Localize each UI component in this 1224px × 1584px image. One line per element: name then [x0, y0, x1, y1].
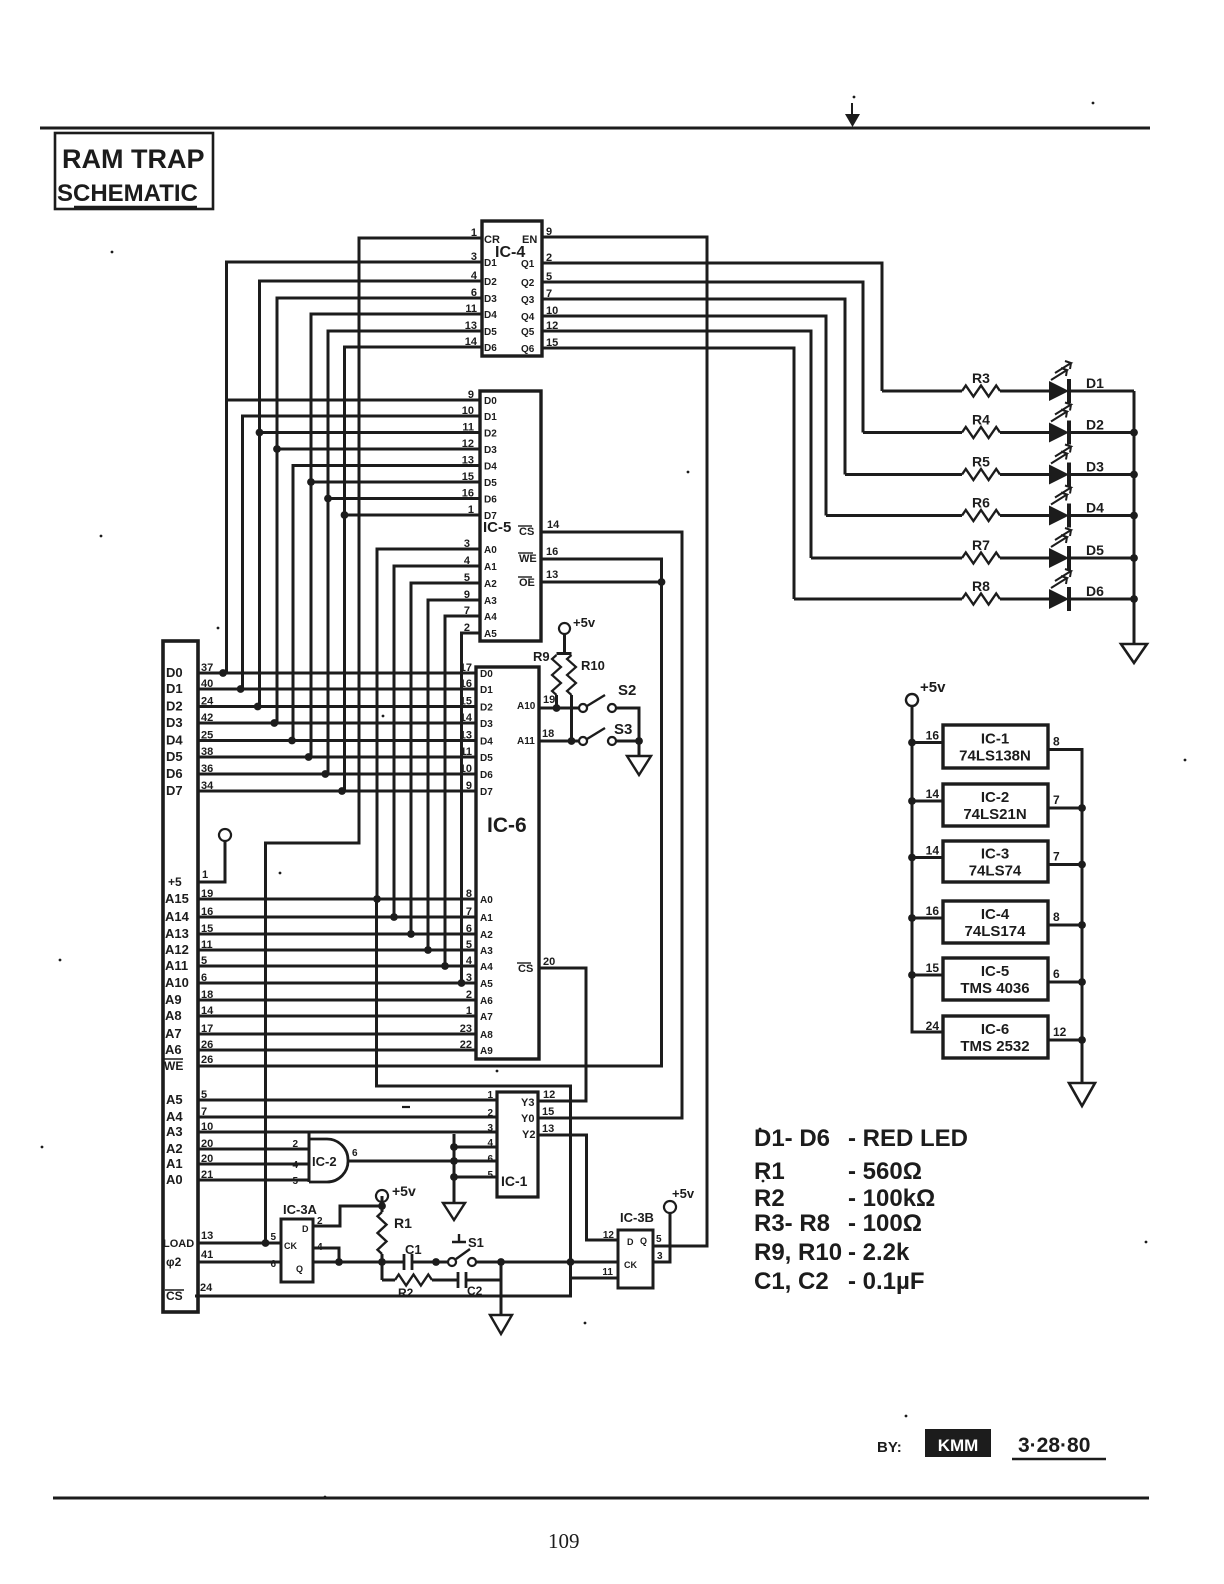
svg-text:24: 24 [200, 1282, 213, 1294]
svg-text:42: 42 [201, 712, 213, 724]
svg-text:22: 22 [460, 1039, 472, 1051]
svg-text:S3: S3 [614, 721, 632, 738]
svg-text:3: 3 [657, 1251, 663, 1262]
svg-text:Q3: Q3 [521, 295, 535, 306]
svg-text:R4: R4 [972, 412, 990, 428]
svg-text:- RED LED: - RED LED [848, 1125, 968, 1152]
svg-text:A4: A4 [484, 612, 497, 623]
svg-text:16: 16 [926, 904, 940, 918]
svg-text:A2: A2 [484, 579, 497, 590]
svg-text:3: 3 [471, 251, 477, 263]
svg-text:R2: R2 [754, 1185, 785, 1212]
svg-text:74LS138N: 74LS138N [959, 748, 1031, 765]
svg-text:21: 21 [201, 1169, 213, 1181]
svg-text:Y3: Y3 [521, 1097, 534, 1109]
svg-text:18: 18 [542, 728, 554, 740]
svg-text:A11: A11 [165, 958, 188, 973]
svg-text:Q1: Q1 [521, 259, 535, 270]
svg-text:KMM: KMM [938, 1436, 979, 1455]
svg-text:7: 7 [466, 906, 472, 918]
svg-text:2: 2 [546, 252, 552, 264]
svg-text:RAM TRAP: RAM TRAP [62, 144, 205, 174]
svg-text:WE: WE [519, 553, 537, 565]
svg-text:6: 6 [1053, 967, 1060, 981]
svg-text:D: D [302, 1224, 309, 1234]
svg-text:12: 12 [546, 320, 558, 332]
svg-text:74LS74: 74LS74 [969, 863, 1022, 880]
svg-text:A3: A3 [484, 596, 497, 607]
svg-text:D5: D5 [484, 478, 497, 489]
svg-text:4: 4 [466, 955, 473, 967]
svg-text:D5: D5 [480, 753, 493, 764]
svg-text:D0: D0 [166, 665, 183, 680]
svg-text:EN: EN [522, 234, 537, 246]
svg-text:- 100Ω: - 100Ω [848, 1210, 922, 1237]
svg-text:D7: D7 [480, 787, 493, 798]
svg-text:R3- R8: R3- R8 [754, 1210, 830, 1237]
svg-text:D: D [627, 1237, 634, 1247]
svg-text:1: 1 [468, 504, 474, 516]
svg-text:10: 10 [462, 405, 474, 417]
svg-text:D1: D1 [480, 685, 493, 696]
svg-text:A11: A11 [517, 736, 535, 747]
svg-text:- 100kΩ: - 100kΩ [848, 1185, 935, 1212]
svg-text:9: 9 [464, 589, 470, 601]
svg-text:13: 13 [462, 455, 474, 467]
svg-text:13: 13 [465, 320, 477, 332]
svg-text:2: 2 [487, 1108, 493, 1119]
svg-text:D1: D1 [1086, 375, 1104, 391]
svg-text:CR: CR [484, 234, 500, 246]
svg-text:CK: CK [284, 1241, 297, 1251]
svg-text:14: 14 [460, 712, 473, 724]
svg-text:A0: A0 [484, 545, 497, 556]
svg-text:13: 13 [546, 569, 558, 581]
svg-text:26: 26 [201, 1054, 213, 1066]
svg-text:D6: D6 [1086, 583, 1104, 599]
svg-text:7: 7 [1053, 793, 1060, 807]
svg-text:9: 9 [466, 780, 472, 792]
svg-text:A9: A9 [480, 1046, 493, 1057]
svg-text:TMS 4036: TMS 4036 [960, 980, 1029, 997]
svg-text:A8: A8 [480, 1030, 493, 1041]
svg-text:+5v: +5v [392, 1183, 416, 1199]
svg-text:1: 1 [471, 227, 477, 239]
svg-text:16: 16 [926, 729, 940, 743]
svg-text:12: 12 [603, 1230, 615, 1241]
svg-text:16: 16 [201, 906, 213, 918]
svg-text:16: 16 [460, 678, 472, 690]
svg-text:8: 8 [1053, 735, 1060, 749]
svg-text:SCHEMATIC: SCHEMATIC [57, 180, 198, 207]
svg-text:- 2.2k: - 2.2k [848, 1239, 910, 1266]
svg-text:IC-4: IC-4 [981, 906, 1010, 923]
svg-text:38: 38 [201, 746, 213, 758]
svg-text:TMS 2532: TMS 2532 [960, 1038, 1029, 1055]
svg-text:18: 18 [201, 989, 213, 1001]
svg-text:A0: A0 [480, 895, 493, 906]
svg-text:R10: R10 [581, 658, 605, 673]
svg-text:5: 5 [464, 572, 470, 584]
svg-text:D4: D4 [484, 462, 497, 473]
svg-text:D1- D6: D1- D6 [754, 1125, 830, 1152]
svg-text:20: 20 [201, 1153, 213, 1165]
svg-text:9: 9 [546, 226, 552, 238]
svg-text:7: 7 [201, 1106, 207, 1118]
svg-text:8: 8 [1053, 910, 1060, 924]
svg-text:D1: D1 [484, 258, 497, 269]
svg-text:19: 19 [201, 888, 213, 900]
svg-text:Q5: Q5 [521, 327, 535, 338]
svg-text:A13: A13 [165, 926, 189, 941]
svg-text:C1, C2: C1, C2 [754, 1268, 829, 1295]
svg-text:15: 15 [926, 961, 940, 975]
svg-text:OE: OE [519, 577, 535, 589]
svg-text:D3: D3 [484, 445, 497, 456]
svg-text:6: 6 [270, 1259, 276, 1270]
svg-text:6: 6 [352, 1148, 358, 1159]
svg-text:3: 3 [487, 1123, 493, 1134]
svg-text:R9, R10: R9, R10 [754, 1239, 842, 1266]
svg-text:D4: D4 [166, 733, 183, 748]
svg-text:2: 2 [292, 1139, 298, 1150]
svg-text:5: 5 [546, 271, 552, 283]
svg-text:D3: D3 [480, 719, 493, 730]
svg-text:A5: A5 [166, 1092, 183, 1107]
svg-text:D6: D6 [484, 495, 497, 506]
svg-text:6: 6 [471, 287, 477, 299]
svg-text:11: 11 [462, 422, 474, 434]
svg-text:A1: A1 [480, 913, 493, 924]
svg-text:R9: R9 [533, 649, 550, 664]
svg-text:13: 13 [542, 1123, 554, 1135]
svg-text:12: 12 [543, 1089, 555, 1101]
svg-text:LOAD: LOAD [163, 1238, 194, 1250]
svg-text:A2: A2 [166, 1141, 183, 1156]
svg-text:8: 8 [466, 888, 472, 900]
svg-text:5: 5 [201, 1089, 207, 1101]
svg-text:+5v: +5v [672, 1186, 695, 1201]
svg-text:IC-3B: IC-3B [620, 1210, 654, 1225]
svg-text:11: 11 [602, 1267, 613, 1278]
svg-text:R5: R5 [972, 454, 990, 470]
svg-text:17: 17 [460, 662, 472, 674]
svg-text:D6: D6 [166, 766, 183, 781]
svg-text:5: 5 [656, 1234, 662, 1245]
svg-text:15: 15 [546, 337, 558, 349]
svg-text:Y0: Y0 [521, 1113, 534, 1125]
svg-text:74LS174: 74LS174 [965, 923, 1027, 940]
svg-text:A14: A14 [165, 909, 190, 924]
svg-text:D6: D6 [480, 770, 493, 781]
svg-text:CS: CS [518, 963, 533, 975]
svg-text:Q6: Q6 [521, 344, 535, 355]
svg-text:A8: A8 [165, 1008, 182, 1023]
svg-text:D4: D4 [1086, 500, 1104, 516]
svg-text:A3: A3 [480, 946, 493, 957]
svg-text:15: 15 [201, 923, 213, 935]
svg-text:12: 12 [1053, 1025, 1067, 1039]
svg-text:D4: D4 [480, 737, 493, 748]
svg-text:D3: D3 [166, 715, 183, 730]
svg-text:6: 6 [466, 923, 472, 935]
svg-text:+5: +5 [168, 875, 182, 889]
svg-text:26: 26 [201, 1039, 213, 1051]
svg-text:R6: R6 [972, 495, 990, 511]
svg-text:D3: D3 [1086, 459, 1104, 475]
svg-text:10: 10 [201, 1121, 213, 1133]
svg-text:15: 15 [542, 1106, 554, 1118]
svg-text:D5: D5 [1086, 542, 1104, 558]
svg-text:14: 14 [926, 787, 940, 801]
svg-text:12: 12 [462, 438, 474, 450]
svg-text:6: 6 [487, 1154, 493, 1165]
svg-text:24: 24 [926, 1019, 940, 1033]
svg-text:D2: D2 [484, 429, 497, 440]
svg-text:14: 14 [926, 844, 940, 858]
svg-text:4: 4 [464, 555, 471, 567]
svg-text:D6: D6 [484, 343, 497, 354]
svg-text:R1: R1 [394, 1215, 412, 1231]
svg-text:2: 2 [317, 1216, 323, 1227]
svg-text:9: 9 [468, 389, 474, 401]
svg-text:R8: R8 [972, 578, 990, 594]
svg-text:36: 36 [201, 763, 213, 775]
svg-text:1: 1 [202, 869, 208, 881]
svg-text:D1: D1 [484, 412, 497, 423]
svg-text:A10: A10 [165, 975, 189, 990]
svg-text:7: 7 [546, 288, 552, 300]
svg-text:A1: A1 [166, 1156, 183, 1171]
svg-text:D4: D4 [484, 310, 497, 321]
svg-text:R7: R7 [972, 537, 990, 553]
svg-text:1: 1 [466, 1005, 472, 1017]
svg-text:A6: A6 [165, 1042, 182, 1057]
svg-text:+5v: +5v [920, 679, 946, 696]
svg-text:S1: S1 [468, 1235, 484, 1250]
svg-text:R1: R1 [754, 1158, 785, 1185]
svg-text:23: 23 [460, 1023, 472, 1035]
svg-text:5: 5 [466, 939, 472, 951]
svg-text:D3: D3 [484, 294, 497, 305]
svg-text:24: 24 [201, 696, 214, 708]
svg-text:A1: A1 [484, 562, 497, 573]
svg-text:19: 19 [543, 694, 555, 706]
svg-text:C2: C2 [467, 1284, 483, 1298]
svg-text:IC-3: IC-3 [981, 846, 1009, 863]
svg-text:Q: Q [640, 1236, 647, 1246]
svg-text:+5v: +5v [573, 615, 596, 630]
svg-text:34: 34 [201, 780, 214, 792]
svg-text:- 560Ω: - 560Ω [848, 1158, 922, 1185]
svg-text:41: 41 [201, 1249, 213, 1261]
svg-text:37: 37 [201, 662, 213, 674]
svg-text:14: 14 [201, 1005, 214, 1017]
svg-text:7: 7 [464, 605, 470, 617]
svg-text:A5: A5 [484, 629, 497, 640]
svg-text:Q4: Q4 [521, 312, 535, 323]
svg-text:15: 15 [460, 696, 472, 708]
svg-text:16: 16 [546, 546, 558, 558]
svg-text:WE: WE [164, 1059, 183, 1073]
svg-text:17: 17 [201, 1023, 213, 1035]
svg-text:A3: A3 [166, 1124, 183, 1139]
svg-text:A4: A4 [480, 962, 493, 973]
svg-text:10: 10 [546, 305, 558, 317]
svg-text:5: 5 [292, 1176, 298, 1187]
svg-text:CK: CK [624, 1260, 637, 1270]
svg-text:S2: S2 [618, 682, 636, 699]
svg-text:R3: R3 [972, 370, 990, 386]
svg-text:A6: A6 [480, 996, 493, 1007]
svg-text:BY:: BY: [877, 1439, 902, 1456]
svg-text:14: 14 [547, 519, 560, 531]
svg-text:Q2: Q2 [521, 278, 535, 289]
svg-text:11: 11 [465, 303, 477, 315]
svg-text:3·28·80: 3·28·80 [1018, 1434, 1090, 1457]
svg-text:IC-2: IC-2 [981, 789, 1009, 806]
svg-text:6: 6 [201, 972, 207, 984]
svg-text:D7: D7 [166, 783, 183, 798]
svg-text:20: 20 [201, 1138, 213, 1150]
svg-text:D7: D7 [484, 511, 497, 522]
svg-text:IC-6: IC-6 [981, 1021, 1009, 1038]
svg-text:A9: A9 [165, 992, 182, 1007]
svg-text:13: 13 [460, 730, 472, 742]
svg-text:16: 16 [462, 488, 474, 500]
svg-text:5: 5 [487, 1170, 493, 1181]
svg-text:CS: CS [166, 1289, 183, 1303]
svg-text:A12: A12 [165, 942, 189, 957]
svg-text:15: 15 [462, 471, 474, 483]
svg-text:20: 20 [543, 956, 555, 968]
svg-text:10: 10 [460, 763, 472, 775]
svg-text:D2: D2 [1086, 417, 1104, 433]
svg-text:5: 5 [201, 955, 207, 967]
svg-text:A15: A15 [165, 891, 189, 906]
svg-text:φ2: φ2 [166, 1255, 182, 1269]
svg-text:A7: A7 [480, 1012, 493, 1023]
svg-text:13: 13 [201, 1230, 213, 1242]
svg-text:D2: D2 [166, 699, 183, 714]
svg-text:11: 11 [201, 939, 213, 951]
svg-text:D0: D0 [480, 669, 493, 680]
svg-text:- 0.1µF: - 0.1µF [848, 1268, 925, 1295]
svg-text:5: 5 [270, 1232, 276, 1243]
svg-text:74LS21N: 74LS21N [963, 806, 1026, 823]
svg-text:109: 109 [548, 1529, 580, 1553]
svg-text:14: 14 [465, 336, 478, 348]
svg-text:R2: R2 [398, 1286, 414, 1300]
svg-text:1: 1 [487, 1090, 493, 1101]
svg-text:IC-1: IC-1 [501, 1173, 528, 1189]
svg-text:IC-1: IC-1 [981, 731, 1009, 748]
svg-text:4: 4 [292, 1160, 298, 1171]
svg-text:Y2: Y2 [522, 1129, 535, 1141]
svg-text:A4: A4 [166, 1109, 183, 1124]
svg-text:D2: D2 [480, 703, 493, 714]
svg-text:C1: C1 [405, 1242, 422, 1257]
svg-text:A2: A2 [480, 930, 493, 941]
svg-text:2: 2 [464, 622, 470, 634]
svg-text:IC-3A: IC-3A [283, 1202, 318, 1217]
svg-text:D0: D0 [484, 396, 497, 407]
svg-text:D2: D2 [484, 277, 497, 288]
svg-text:A7: A7 [165, 1026, 182, 1041]
svg-text:IC-2: IC-2 [312, 1154, 337, 1169]
svg-text:CS: CS [519, 526, 534, 538]
svg-text:D5: D5 [166, 749, 183, 764]
svg-text:40: 40 [201, 678, 213, 690]
svg-text:4: 4 [471, 270, 478, 282]
svg-text:A10: A10 [517, 701, 536, 712]
svg-text:25: 25 [201, 730, 213, 742]
svg-text:IC-5: IC-5 [981, 963, 1009, 980]
svg-text:4: 4 [487, 1138, 493, 1149]
svg-text:A0: A0 [166, 1172, 183, 1187]
svg-text:4: 4 [317, 1242, 323, 1253]
svg-text:D1: D1 [166, 681, 183, 696]
svg-text:Q: Q [296, 1264, 303, 1274]
svg-text:A5: A5 [480, 979, 493, 990]
svg-text:D5: D5 [484, 327, 497, 338]
svg-text:3: 3 [466, 972, 472, 984]
svg-text:IC-6: IC-6 [487, 814, 527, 837]
svg-text:3: 3 [464, 538, 470, 550]
svg-text:2: 2 [466, 989, 472, 1001]
svg-text:7: 7 [1053, 850, 1060, 864]
svg-text:11: 11 [460, 746, 472, 758]
